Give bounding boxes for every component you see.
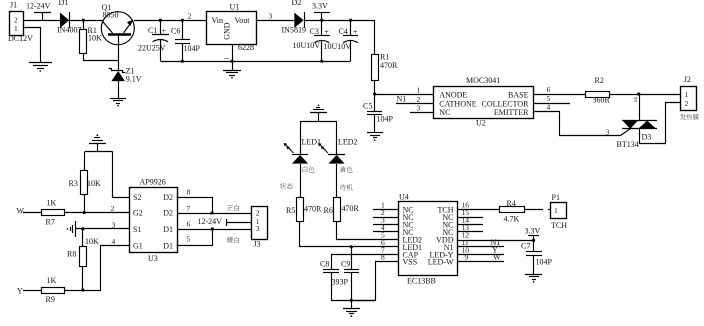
wire R7 to U3 G2	[64, 212, 129, 214]
svg-text:5: 5	[187, 235, 191, 244]
svg-text:4: 4	[547, 103, 551, 112]
ground (Z1)	[110, 99, 126, 107]
wire U4 pin11 N1 stub	[458, 246, 504, 248]
svg-text:D1: D1	[163, 242, 173, 251]
node R8 tap	[81, 227, 84, 230]
svg-text:8: 8	[187, 188, 191, 197]
wire U1 gnd lead	[232, 45, 234, 70]
capacitor C3 10U10V	[293, 20, 331, 61]
wire net N1 to U2 pin2	[396, 103, 434, 105]
wire corner down to R1 470R	[374, 21, 376, 55]
svg-text:+: +	[353, 28, 358, 37]
svg-text:TCH: TCH	[551, 221, 567, 230]
wire U4 pin12 VDD to 3.3V	[458, 240, 534, 242]
wire U4 pin4 stub	[373, 231, 398, 233]
resistor R3 10K	[69, 152, 102, 212]
label 白色	[303, 166, 315, 172]
ground (J1)	[29, 63, 52, 72]
resistor R2 360R	[586, 76, 611, 105]
wire R2 to J2 pin1	[610, 94, 680, 96]
resistor R8 10K	[67, 229, 99, 290]
svg-text:393P: 393P	[332, 278, 349, 287]
svg-text:LED-W: LED-W	[428, 258, 454, 267]
svg-text:1: 1	[14, 24, 18, 33]
svg-text:C5: C5	[363, 102, 372, 111]
svg-text:D1: D1	[59, 0, 69, 7]
svg-text:C4: C4	[339, 27, 348, 36]
svg-text:1K: 1K	[47, 199, 57, 208]
power symbol 3.3V	[312, 1, 330, 20]
node 3.3V/C3 tap	[320, 19, 323, 22]
wire U4 pin14 stub	[458, 224, 483, 226]
node VDD/C7 junction	[532, 239, 535, 242]
svg-text:J2: J2	[684, 75, 691, 84]
svg-text:S2: S2	[133, 193, 141, 202]
svg-text:J1: J1	[10, 1, 17, 10]
svg-text:R2: R2	[595, 76, 604, 85]
svg-text:Vin: Vin	[212, 16, 224, 25]
wire R4 to P1	[524, 209, 543, 211]
wire U3 pin8 to pin7	[177, 198, 213, 214]
svg-text:J3: J3	[254, 239, 261, 248]
capacitor C8 393P	[320, 254, 339, 300]
wire W stub	[23, 212, 42, 214]
svg-text:3: 3	[269, 11, 273, 20]
wire U2 pin3 stub	[410, 112, 434, 114]
wire R5 to U4 pin6	[300, 222, 399, 247]
node C1 tap	[159, 19, 162, 22]
zener Z1 9.1V	[109, 67, 142, 98]
svg-text:3: 3	[256, 224, 260, 233]
svg-text:Y: Y	[17, 287, 23, 296]
svg-text:D2: D2	[163, 193, 173, 202]
LED1 arrows	[284, 143, 294, 153]
svg-text:GND: GND	[222, 22, 231, 40]
wire U3 pin5 riser	[177, 230, 213, 246]
svg-text:W: W	[17, 207, 25, 216]
svg-text:+: +	[324, 28, 329, 37]
svg-text:1: 1	[417, 86, 421, 95]
svg-text:R6: R6	[324, 206, 333, 215]
svg-text:R7: R7	[46, 218, 55, 227]
svg-text:104P: 104P	[377, 114, 394, 123]
label 黄色	[340, 166, 353, 172]
svg-text:10U10V: 10U10V	[293, 41, 321, 50]
svg-text:9: 9	[465, 253, 469, 262]
svg-text:10K: 10K	[85, 237, 99, 246]
power symbol 12-24V	[26, 1, 51, 20]
svg-text:22U25V: 22U25V	[138, 44, 166, 53]
resistor R6 470R	[324, 198, 360, 222]
svg-text:C6: C6	[171, 27, 180, 36]
capacitor C1 22U25V	[138, 20, 169, 61]
diode D1 IN4007	[57, 0, 81, 35]
svg-text:10K: 10K	[88, 33, 102, 42]
connector J2	[680, 75, 699, 120]
svg-text:2: 2	[417, 95, 421, 104]
svg-text:4.7K: 4.7K	[504, 215, 520, 224]
svg-text:104P: 104P	[184, 44, 201, 53]
svg-text:6: 6	[547, 85, 551, 94]
svg-text:D3: D3	[642, 133, 652, 142]
wire U1 Vout to D2	[257, 20, 294, 22]
transistor Q1 8050	[101, 3, 134, 70]
svg-text:12-24V: 12-24V	[26, 1, 51, 10]
svg-text:3.3V: 3.3V	[525, 227, 541, 236]
node R2/D3/J2 junction	[637, 92, 640, 95]
left ground (S1)	[67, 221, 76, 237]
svg-text:6228: 6228	[238, 43, 254, 52]
wire LED rail	[301, 121, 337, 123]
resistor R5 470R	[286, 198, 322, 222]
wire junction to U2 pin1	[375, 94, 434, 96]
svg-text:EMITTER: EMITTER	[494, 108, 529, 117]
wire U3 pin6 to J3 pin3	[177, 229, 251, 231]
wire Y stub	[23, 290, 42, 292]
wire U4 pin9 W stub	[458, 261, 504, 263]
node R1/C5/U2 junction	[373, 92, 376, 95]
svg-text:C7: C7	[521, 242, 530, 251]
svg-text:LED2: LED2	[338, 138, 358, 147]
resistor R4 4.7K	[500, 199, 525, 224]
node pin6/pin5 junction	[211, 227, 214, 230]
wire S2 riser	[113, 152, 130, 198]
svg-text:BASE: BASE	[508, 90, 529, 99]
wire U4 pin10 Y stub	[458, 254, 504, 256]
label 暖白	[227, 237, 239, 243]
svg-text:P1: P1	[552, 193, 560, 202]
svg-text:D2: D2	[163, 209, 173, 218]
svg-text:C3: C3	[310, 27, 319, 36]
svg-text:NC: NC	[439, 108, 450, 117]
label 待机	[340, 184, 353, 190]
resistor R7 1K	[42, 199, 65, 227]
capacitor C9	[341, 245, 359, 300]
ground (C8/C9)	[343, 300, 360, 317]
svg-text:G1: G1	[133, 242, 143, 251]
wire D2 to corner	[304, 20, 375, 22]
wire U2 pin6 to R2	[534, 94, 586, 96]
wire D3 bottom to J2 pin2	[640, 103, 681, 144]
svg-text:1: 1	[685, 90, 689, 99]
wire U4 pin15 stub	[458, 217, 483, 219]
LED2 yellow	[328, 121, 358, 198]
triac D3 BT134	[617, 121, 658, 150]
svg-text:e4: e4	[634, 97, 639, 102]
svg-text:2: 2	[685, 99, 689, 108]
node R8/R9 junction	[81, 288, 84, 291]
capacitor C6 104P	[171, 20, 201, 61]
resistor R1 470R	[372, 53, 399, 95]
svg-text:DC12V: DC12V	[8, 34, 33, 43]
resistor R9 1K	[42, 276, 65, 304]
power symbol 3.3V (C7)	[525, 227, 541, 252]
svg-text:R3: R3	[69, 179, 78, 188]
inverted ground (LED rail)	[310, 104, 327, 121]
capacitor C7 104P	[521, 242, 553, 275]
capacitor C5 104P	[363, 94, 394, 132]
svg-text:AP9926: AP9926	[140, 178, 166, 187]
ground (C7)	[525, 275, 542, 283]
svg-text:U4: U4	[399, 193, 409, 202]
wire U4 pin8 VSS down	[352, 262, 399, 301]
wire C8/C9 ground rail	[331, 300, 375, 302]
svg-text:VSS: VSS	[403, 258, 418, 267]
ic U3 AP9926	[130, 178, 178, 263]
svg-text:S1: S1	[133, 225, 141, 234]
svg-text:N1: N1	[397, 94, 407, 103]
wire U4 pin13 stub	[458, 231, 483, 233]
wire junction down to D3	[639, 94, 641, 121]
wire U3 top rail	[85, 151, 113, 153]
node ground rail	[350, 299, 353, 302]
wire S1 ground to U3	[76, 228, 129, 230]
svg-text:104P: 104P	[536, 258, 553, 267]
node C3 bottom	[320, 60, 323, 63]
svg-text:MOC3041: MOC3041	[466, 76, 500, 85]
node C6 bottom	[181, 60, 184, 63]
ic U4 EC13BB	[399, 193, 458, 286]
node R3/R7 junction	[83, 211, 86, 214]
svg-text:BT134: BT134	[617, 140, 639, 149]
svg-text:IN4007: IN4007	[57, 26, 81, 35]
wire U4 pin3 stub	[373, 224, 398, 226]
svg-text:4: 4	[112, 237, 116, 246]
svg-text:D2: D2	[292, 0, 302, 7]
wire U4 pin2 stub	[373, 217, 398, 219]
svg-text:10K: 10K	[87, 179, 101, 188]
op-coupler U2 MOC3041	[434, 76, 534, 128]
wire R9 to G1 riser	[64, 290, 101, 292]
svg-text:1K: 1K	[47, 276, 57, 285]
wire J1 pin2 to D1	[24, 20, 60, 22]
resistor R1 10K	[80, 20, 103, 60]
svg-text:C8: C8	[320, 260, 329, 269]
diode D2 IN5819	[282, 0, 306, 35]
svg-text:LED1: LED1	[302, 138, 322, 147]
svg-text:ANODE: ANODE	[439, 90, 467, 99]
wire U4 pin1 stub	[373, 209, 398, 211]
node D1/R1 junction	[82, 19, 85, 22]
wire R1 bottom to Q1 base	[83, 60, 118, 62]
svg-text:360R: 360R	[593, 96, 611, 105]
node C4 tap	[349, 19, 352, 22]
svg-text:EC13BB: EC13BB	[407, 276, 436, 285]
wire D1 to Q1	[70, 20, 102, 22]
label 状态	[280, 183, 293, 189]
svg-text:7: 7	[187, 204, 191, 213]
wire U2 pin4 to triac gate	[535, 112, 631, 136]
svg-text:10U10V: 10U10V	[324, 42, 352, 51]
LED1 white	[292, 121, 321, 198]
node pin8/pin7 junction	[211, 211, 214, 214]
svg-text:U1: U1	[230, 3, 240, 12]
svg-text:U2: U2	[476, 119, 486, 128]
wire U4 pin7 to C8	[331, 254, 398, 256]
svg-text:1: 1	[111, 189, 115, 198]
svg-text:W: W	[493, 253, 501, 262]
svg-text:R8: R8	[67, 250, 76, 259]
connector P1	[551, 193, 568, 230]
bottom rail C1 to C4	[161, 61, 351, 63]
svg-text:D1: D1	[163, 225, 173, 234]
wire J1 pin1 to ground	[25, 28, 41, 63]
wire U3 pin7 to J3 pin2	[177, 213, 251, 215]
svg-text:470R: 470R	[380, 61, 398, 70]
svg-text:U3: U3	[148, 254, 158, 263]
svg-text:12-24V: 12-24V	[198, 217, 223, 226]
power stub 12-24V (J3)	[198, 217, 252, 226]
wire U4 pin16 to R4	[458, 209, 499, 211]
regulator U1 6228	[207, 3, 257, 53]
svg-text:C9: C9	[341, 260, 350, 269]
node C6 tap	[181, 19, 184, 22]
wire U2 pin5 stub	[534, 103, 570, 105]
ground (C5)	[367, 133, 383, 141]
svg-text:470R: 470R	[342, 204, 360, 213]
inverted ground (U3 rail)	[89, 134, 106, 152]
wire G1 riser	[101, 246, 130, 291]
ground (U1)	[223, 71, 241, 79]
svg-text:3: 3	[417, 104, 421, 113]
tick mark	[224, 58, 229, 60]
label 正白	[227, 205, 240, 211]
wire R6 to U4 pin5	[337, 222, 399, 240]
svg-text:C1: C1	[148, 26, 157, 35]
svg-text:3: 3	[112, 220, 116, 229]
wire Q1 emitter rail to U1	[134, 20, 207, 22]
svg-text:9.1V: 9.1V	[126, 75, 142, 84]
svg-text:R5: R5	[286, 206, 295, 215]
LED2 arrows	[318, 143, 328, 153]
svg-text:2: 2	[188, 11, 192, 20]
svg-text:470R: 470R	[304, 205, 322, 214]
svg-text:1: 1	[554, 206, 558, 215]
node U1 gnd	[230, 60, 233, 63]
svg-text:R4: R4	[507, 199, 516, 208]
svg-text:G2: G2	[133, 209, 143, 218]
svg-text:3: 3	[606, 127, 610, 136]
svg-text:8050: 8050	[103, 11, 119, 20]
connector J1	[8, 1, 33, 44]
svg-text:2: 2	[111, 204, 115, 213]
svg-text:+: +	[162, 27, 167, 36]
capacitor C4 10U10V	[324, 20, 359, 61]
svg-text:Vout: Vout	[235, 16, 251, 25]
svg-text:3.3V: 3.3V	[312, 1, 328, 10]
svg-text:R9: R9	[46, 295, 55, 304]
connector J3	[252, 207, 268, 249]
svg-text:6: 6	[187, 220, 191, 229]
svg-text:IN5819: IN5819	[282, 26, 306, 35]
